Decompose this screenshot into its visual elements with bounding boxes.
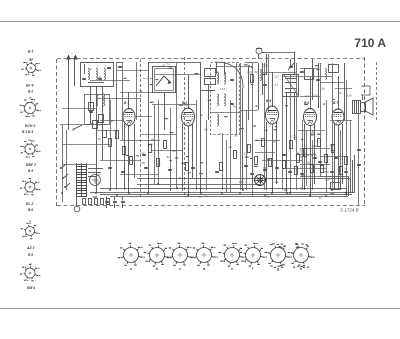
svg-text:R4: R4 bbox=[254, 70, 258, 74]
value label bbox=[267, 159, 270, 160]
gang link bbox=[141, 78, 152, 80]
resistor bbox=[220, 163, 223, 171]
svg-text:100: 100 bbox=[330, 143, 335, 147]
transformer stub 3 bbox=[88, 176, 96, 178]
svg-text:0,05: 0,05 bbox=[247, 70, 253, 74]
wire bbox=[246, 110, 248, 190]
svg-text:b: b bbox=[156, 267, 158, 271]
svg-text:3k: 3k bbox=[300, 155, 304, 159]
wire bbox=[294, 52, 296, 75]
svg-text:e: e bbox=[231, 267, 233, 271]
svg-text:h: h bbox=[300, 267, 302, 271]
small box bbox=[329, 65, 339, 73]
svg-text:C12: C12 bbox=[274, 74, 280, 78]
wire bbox=[335, 88, 352, 90]
value label bbox=[251, 67, 253, 68]
enclosure bottom bbox=[100, 188, 346, 190]
wire bbox=[110, 100, 112, 190]
pinout AZ1 socket bbox=[21, 223, 40, 240]
wire bbox=[340, 130, 342, 186]
value label bbox=[169, 68, 173, 69]
svg-text:100: 100 bbox=[347, 93, 352, 97]
IF bar 1 bbox=[285, 78, 297, 80]
svg-text:0,5: 0,5 bbox=[300, 174, 304, 178]
capacitor bbox=[300, 174, 304, 175]
enclosure right bbox=[350, 179, 352, 193]
wire bbox=[344, 63, 346, 120]
top rule bbox=[0, 21, 400, 23]
resistor bbox=[332, 145, 335, 153]
tube lead bbox=[272, 124, 274, 193]
capacitor bbox=[142, 155, 146, 156]
capacitor bbox=[316, 80, 320, 81]
wire bbox=[217, 66, 252, 68]
pinout ECH3 socket bbox=[20, 99, 41, 117]
svg-text:2M: 2M bbox=[234, 134, 239, 138]
svg-text:8p: 8p bbox=[98, 137, 102, 141]
wire bbox=[62, 164, 96, 166]
capacitor bbox=[215, 172, 219, 173]
wire bbox=[66, 130, 68, 190]
value label bbox=[244, 64, 248, 65]
osc coil L8 bbox=[217, 94, 219, 106]
switch box bbox=[85, 95, 110, 125]
svg-text:100: 100 bbox=[140, 161, 145, 165]
svg-text:3k: 3k bbox=[339, 91, 343, 95]
band coil L5 bbox=[103, 94, 105, 106]
value label bbox=[155, 79, 158, 80]
tube EF9 U1 bbox=[123, 106, 135, 126]
value label bbox=[170, 132, 174, 133]
junction bbox=[286, 192, 288, 194]
wire bbox=[286, 92, 288, 193]
small box bbox=[305, 69, 314, 80]
resistor bbox=[251, 75, 254, 83]
svg-text:a: a bbox=[29, 219, 31, 223]
tube EL2 U5 bbox=[332, 106, 344, 125]
svg-text:EBF 2: EBF 2 bbox=[26, 163, 36, 167]
osc trimmer C3 bbox=[230, 80, 234, 81]
svg-text:0,5: 0,5 bbox=[219, 132, 223, 136]
resistor bbox=[325, 155, 328, 163]
transformer stub 2 bbox=[88, 172, 101, 174]
wire bbox=[148, 62, 150, 193]
value label bbox=[200, 162, 203, 163]
resistor bbox=[123, 147, 126, 155]
wire bbox=[224, 63, 226, 74]
tube lead bbox=[192, 124, 194, 178]
bus wire 3 bbox=[90, 192, 354, 194]
resistor bbox=[345, 157, 348, 165]
capacitor bbox=[191, 168, 195, 169]
padding cap C2 bbox=[89, 112, 93, 113]
wire bbox=[154, 104, 156, 184]
wire bbox=[262, 160, 302, 162]
coil L14 bbox=[325, 68, 326, 79]
value label bbox=[172, 150, 176, 151]
junction bbox=[157, 183, 159, 185]
wire bbox=[264, 63, 266, 190]
wire bbox=[283, 168, 326, 170]
wire bbox=[326, 100, 328, 193]
band coil L4 bbox=[96, 94, 98, 106]
tube base c bbox=[167, 243, 194, 271]
svg-text:C12: C12 bbox=[139, 151, 145, 155]
wire bbox=[62, 108, 96, 110]
wire bbox=[90, 80, 130, 82]
capacitor bbox=[334, 158, 338, 159]
value label bbox=[274, 129, 276, 130]
value label bbox=[317, 69, 320, 70]
wire bbox=[358, 100, 360, 205]
junction bbox=[239, 192, 241, 194]
capacitor bbox=[357, 150, 361, 151]
wire bbox=[208, 85, 210, 120]
speaker LS bbox=[361, 98, 374, 115]
wire bbox=[100, 120, 124, 122]
AVC arc bbox=[215, 62, 243, 88]
tube base e bbox=[219, 243, 246, 271]
rectifier lamp electrodes bbox=[92, 177, 99, 184]
wire bbox=[164, 92, 166, 130]
wire bbox=[117, 70, 148, 72]
value label bbox=[265, 130, 267, 131]
value label bbox=[255, 140, 259, 141]
pinout EM4 socket bbox=[20, 264, 41, 281]
resistor bbox=[297, 155, 300, 163]
resistor bbox=[164, 141, 167, 149]
pinout EL2 socket bbox=[20, 178, 41, 195]
capacitor bbox=[144, 168, 148, 169]
resistor bbox=[116, 131, 119, 139]
svg-text:B 2: B 2 bbox=[28, 90, 33, 94]
wire bbox=[248, 66, 250, 120]
value label bbox=[91, 123, 93, 124]
value label bbox=[179, 105, 183, 106]
small rect bbox=[99, 115, 104, 123]
value label bbox=[333, 99, 335, 100]
value label bbox=[164, 118, 168, 119]
svg-text:c: c bbox=[179, 267, 181, 271]
wire bbox=[262, 72, 296, 74]
tube lead bbox=[314, 124, 316, 184]
capacitor bbox=[344, 172, 348, 173]
capacitor bbox=[168, 170, 172, 171]
wire bbox=[302, 120, 304, 190]
wire bbox=[120, 174, 158, 176]
value label bbox=[253, 125, 256, 126]
svg-text:710 A: 710 A bbox=[354, 36, 386, 50]
tuning cap frame bbox=[153, 67, 176, 93]
svg-text:47: 47 bbox=[275, 83, 279, 87]
value label bbox=[251, 84, 253, 85]
svg-text:2M: 2M bbox=[191, 118, 196, 122]
wire bbox=[262, 52, 295, 54]
tube lead bbox=[304, 124, 306, 190]
svg-text:a4: a4 bbox=[229, 145, 233, 149]
wire bbox=[346, 80, 348, 190]
tube top wire bbox=[272, 72, 274, 103]
svg-text:B 8: B 8 bbox=[28, 253, 33, 257]
wire bbox=[60, 124, 90, 126]
value label bbox=[181, 163, 184, 164]
osc coil L10 bbox=[217, 114, 219, 126]
value label bbox=[200, 115, 202, 116]
value label bbox=[323, 104, 325, 105]
trimmer C1 bbox=[107, 68, 111, 69]
wire bbox=[120, 92, 165, 94]
value label bbox=[208, 100, 211, 101]
wire bbox=[282, 92, 284, 190]
bus wire mid bbox=[137, 184, 260, 186]
wire bbox=[320, 82, 345, 84]
value label bbox=[179, 178, 181, 179]
capacitor bbox=[105, 197, 109, 209]
tube lead bbox=[276, 122, 278, 184]
value label bbox=[136, 155, 138, 156]
svg-text:R4: R4 bbox=[233, 104, 237, 108]
wire bbox=[206, 120, 208, 190]
wire bbox=[294, 92, 296, 140]
capacitor bbox=[121, 172, 125, 173]
wire bbox=[300, 164, 330, 166]
earth arrow bbox=[73, 55, 78, 87]
wire bbox=[320, 156, 345, 158]
svg-text:1M: 1M bbox=[321, 87, 326, 91]
value label bbox=[199, 173, 203, 174]
bus wire 5 bbox=[110, 196, 348, 198]
junction bbox=[325, 195, 327, 197]
shield partition 1 bbox=[140, 59, 142, 196]
switch contact 3 bbox=[64, 183, 70, 188]
tone cap block bbox=[331, 183, 341, 190]
wire bbox=[330, 120, 352, 122]
capacitor bbox=[118, 67, 122, 68]
shield partition 2 bbox=[184, 57, 186, 196]
resistor bbox=[130, 157, 133, 165]
wire bbox=[240, 110, 258, 112]
tube lead bbox=[128, 126, 130, 194]
value label bbox=[170, 160, 172, 161]
wire bbox=[155, 74, 201, 76]
pinout EF9 socket bbox=[21, 60, 41, 76]
tube U4 bbox=[304, 106, 317, 126]
svg-text:50k: 50k bbox=[263, 166, 268, 170]
svg-text:a4: a4 bbox=[312, 129, 316, 133]
wire bbox=[268, 54, 270, 112]
wire bbox=[318, 63, 320, 108]
wire bbox=[255, 152, 275, 154]
svg-text:25k: 25k bbox=[239, 180, 244, 184]
IF bar 3 bbox=[285, 88, 297, 90]
svg-text:C12: C12 bbox=[291, 135, 297, 139]
power transformer T1 bbox=[76, 163, 87, 197]
wire bbox=[116, 62, 118, 190]
wire bbox=[262, 63, 264, 95]
antenna arrow bbox=[66, 55, 71, 131]
value label bbox=[320, 165, 324, 166]
speaker bracket bbox=[361, 86, 370, 95]
trimmer box 1 bbox=[205, 69, 216, 77]
junction bbox=[95, 192, 97, 194]
tube top wire bbox=[338, 76, 340, 106]
value label bbox=[93, 196, 97, 197]
resistor bbox=[269, 159, 272, 167]
wire bbox=[300, 68, 318, 70]
value label bbox=[315, 65, 318, 66]
junction bbox=[128, 192, 130, 194]
resistor bbox=[186, 163, 189, 171]
capacitor bbox=[244, 166, 248, 167]
value label bbox=[304, 104, 308, 105]
wire bbox=[300, 96, 320, 98]
resistor bbox=[262, 139, 265, 147]
svg-text:100: 100 bbox=[325, 177, 330, 181]
tube lead bbox=[334, 124, 336, 190]
tube base b bbox=[144, 243, 171, 271]
svg-text:1n: 1n bbox=[297, 150, 301, 154]
value label bbox=[123, 78, 126, 79]
value label bbox=[317, 134, 321, 135]
wire bbox=[312, 140, 314, 190]
wire bbox=[141, 134, 177, 136]
tube lead bbox=[134, 124, 136, 178]
resistor bbox=[311, 165, 314, 173]
value label bbox=[195, 73, 199, 74]
wire bbox=[252, 140, 254, 186]
junction bbox=[271, 192, 273, 194]
wire bbox=[96, 98, 141, 100]
value label bbox=[224, 116, 228, 117]
wire bbox=[255, 140, 280, 142]
value label bbox=[245, 157, 249, 158]
coil L2 bbox=[96, 68, 97, 79]
tube lead bbox=[188, 126, 190, 196]
coil L1 bbox=[88, 68, 89, 79]
resistor bbox=[248, 145, 251, 153]
resistor bbox=[304, 149, 307, 157]
svg-text:0,5: 0,5 bbox=[95, 181, 99, 185]
value label bbox=[301, 139, 303, 140]
resistor bbox=[109, 139, 112, 147]
small rect bbox=[93, 121, 98, 129]
coil rail a bbox=[96, 86, 98, 193]
wire bbox=[62, 125, 64, 202]
svg-text:100: 100 bbox=[313, 94, 318, 98]
junction bbox=[264, 194, 266, 196]
switch contact 2 bbox=[62, 174, 68, 179]
dial lamp bbox=[256, 48, 262, 59]
wire bbox=[290, 59, 292, 67]
value label bbox=[275, 126, 277, 127]
wire bbox=[300, 148, 330, 150]
coil L13 bbox=[260, 69, 261, 80]
junction bbox=[200, 192, 202, 194]
wire bbox=[62, 144, 110, 146]
feedback wire 2 bbox=[352, 160, 354, 193]
value label bbox=[250, 158, 253, 159]
IF cross bbox=[284, 75, 298, 95]
tube top wire bbox=[310, 76, 312, 105]
svg-text:a4: a4 bbox=[204, 194, 208, 198]
osc trimmer C4 bbox=[230, 104, 234, 105]
tube base f bbox=[240, 243, 267, 271]
resistor bbox=[290, 141, 293, 149]
aerial coil box bbox=[81, 63, 114, 87]
svg-text:B 1: B 1 bbox=[28, 50, 34, 54]
capacitor bbox=[275, 168, 279, 169]
svg-text:50k: 50k bbox=[184, 103, 189, 107]
tube base labels bbox=[270, 244, 285, 268]
resistor bbox=[157, 159, 160, 167]
tube base h bbox=[288, 243, 315, 271]
pinout EBF2 socket bbox=[20, 140, 40, 157]
chassis border left bbox=[56, 59, 58, 206]
resistor bbox=[83, 199, 86, 205]
value label bbox=[263, 74, 267, 75]
svg-text:C12: C12 bbox=[220, 87, 226, 91]
value label bbox=[150, 84, 152, 85]
svg-text:25k: 25k bbox=[313, 144, 318, 148]
value label bbox=[248, 65, 250, 66]
tuning eye EM4 bbox=[255, 175, 266, 186]
bus wire 4 bbox=[100, 194, 352, 196]
IF box frame bbox=[283, 75, 299, 97]
capacitor bbox=[263, 85, 267, 86]
bottom rule bbox=[0, 308, 400, 310]
capacitor bbox=[108, 168, 112, 169]
capacitor bbox=[288, 172, 292, 173]
wire bbox=[350, 120, 352, 179]
wire bbox=[296, 63, 298, 190]
value label bbox=[150, 144, 152, 145]
wire bbox=[252, 63, 254, 196]
enclosure top bbox=[137, 178, 350, 180]
resistor bbox=[107, 199, 110, 205]
tube lead bbox=[338, 125, 340, 190]
svg-text:8p: 8p bbox=[97, 172, 101, 176]
value label bbox=[255, 106, 257, 107]
feedback wire 1 bbox=[348, 176, 350, 196]
choke coil bbox=[296, 154, 316, 156]
wire bbox=[158, 100, 160, 184]
wire bbox=[242, 88, 244, 190]
svg-text:R4: R4 bbox=[157, 162, 161, 166]
capacitor bbox=[313, 158, 317, 159]
tube lead bbox=[266, 122, 268, 190]
svg-text:100: 100 bbox=[272, 140, 277, 144]
resistor bbox=[318, 139, 321, 147]
capacitor bbox=[282, 155, 286, 156]
pot wiper bbox=[73, 125, 82, 130]
tube lead bbox=[124, 124, 126, 190]
resistor bbox=[255, 157, 258, 165]
value label bbox=[263, 170, 266, 171]
svg-text:g: g bbox=[276, 267, 280, 271]
wire bbox=[312, 59, 314, 100]
value label bbox=[254, 166, 258, 167]
value label bbox=[331, 150, 335, 151]
svg-text:m: m bbox=[28, 138, 31, 142]
svg-text:2M: 2M bbox=[151, 137, 156, 141]
resistor bbox=[149, 145, 152, 153]
value label bbox=[150, 102, 154, 103]
wire bbox=[120, 140, 160, 142]
svg-text:8p: 8p bbox=[167, 155, 171, 159]
capacitor bbox=[263, 170, 267, 171]
resistor bbox=[101, 199, 104, 205]
wire bbox=[258, 63, 260, 110]
